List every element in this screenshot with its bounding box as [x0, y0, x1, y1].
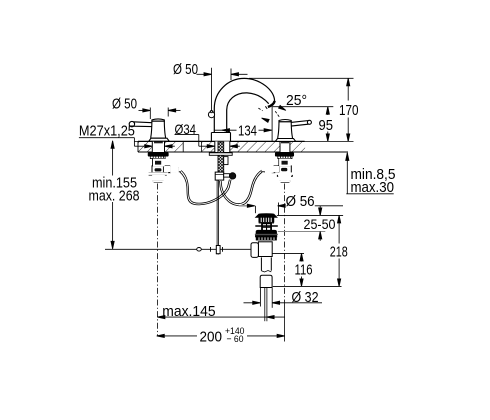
- svg-text:200: 200: [200, 328, 223, 345]
- svg-text:25-50: 25-50: [304, 216, 336, 232]
- svg-text:− 60: − 60: [227, 334, 244, 345]
- svg-text:134: 134: [238, 122, 257, 139]
- svg-text:max.145: max.145: [162, 303, 215, 320]
- svg-text:Ø34: Ø34: [175, 121, 197, 137]
- svg-text:Ø 56: Ø 56: [286, 193, 315, 210]
- svg-text:Ø 50: Ø 50: [173, 61, 198, 78]
- svg-text:25°: 25°: [286, 92, 307, 109]
- svg-text:max.30: max.30: [351, 179, 395, 196]
- svg-text:218: 218: [330, 244, 348, 261]
- svg-text:Ø 32: Ø 32: [292, 289, 319, 306]
- svg-text:max. 268: max. 268: [89, 188, 140, 205]
- svg-text:116: 116: [295, 262, 313, 279]
- svg-text:M27x1,25: M27x1,25: [79, 122, 135, 139]
- svg-text:95: 95: [319, 117, 334, 134]
- svg-text:170: 170: [339, 102, 359, 119]
- svg-text:Ø 50: Ø 50: [112, 96, 137, 113]
